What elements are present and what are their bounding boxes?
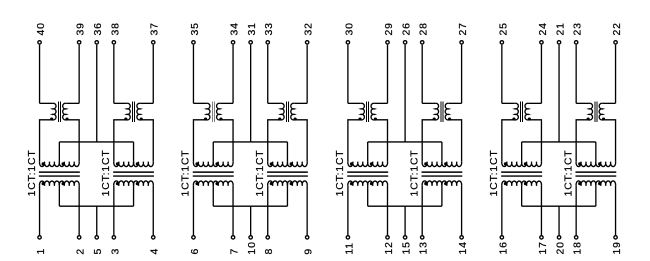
svg-text:8: 8 — [264, 248, 275, 255]
svg-text:35: 35 — [190, 22, 201, 35]
svg-text:31: 31 — [247, 22, 258, 35]
svg-text:9: 9 — [304, 248, 315, 255]
svg-text:14: 14 — [458, 241, 469, 254]
svg-text:11: 11 — [344, 242, 355, 255]
svg-text:37: 37 — [150, 22, 161, 35]
svg-text:28: 28 — [419, 22, 430, 35]
svg-text:39: 39 — [76, 22, 87, 35]
svg-text:12: 12 — [384, 241, 395, 254]
svg-text:30: 30 — [344, 22, 355, 35]
svg-text:24: 24 — [538, 22, 549, 35]
svg-text:25: 25 — [498, 22, 509, 35]
svg-text:33: 33 — [264, 22, 275, 35]
svg-text:1CT:1CT: 1CT:1CT — [255, 149, 266, 196]
svg-text:17: 17 — [538, 241, 549, 254]
svg-text:32: 32 — [304, 22, 315, 35]
svg-text:1CT:1CT: 1CT:1CT — [27, 149, 38, 196]
svg-text:5: 5 — [93, 248, 104, 255]
svg-text:20: 20 — [556, 241, 567, 254]
svg-text:23: 23 — [573, 22, 584, 35]
svg-text:10: 10 — [247, 241, 258, 254]
svg-text:1: 1 — [36, 248, 47, 255]
svg-text:40: 40 — [36, 22, 47, 35]
svg-text:38: 38 — [110, 22, 121, 35]
svg-text:1CT:1CT: 1CT:1CT — [335, 149, 346, 196]
svg-text:15: 15 — [402, 241, 413, 254]
svg-text:18: 18 — [573, 241, 584, 254]
svg-text:7: 7 — [230, 248, 241, 255]
svg-text:26: 26 — [402, 22, 413, 35]
svg-text:6: 6 — [190, 248, 201, 255]
svg-text:19: 19 — [612, 241, 623, 254]
svg-text:1CT:1CT: 1CT:1CT — [563, 149, 574, 196]
svg-text:3: 3 — [110, 248, 121, 255]
svg-text:1CT:1CT: 1CT:1CT — [101, 149, 112, 196]
svg-text:27: 27 — [458, 22, 469, 35]
svg-text:16: 16 — [498, 241, 509, 254]
svg-text:29: 29 — [384, 22, 395, 35]
svg-text:1CT:1CT: 1CT:1CT — [489, 149, 500, 196]
svg-text:13: 13 — [419, 241, 430, 254]
svg-text:1CT:1CT: 1CT:1CT — [410, 149, 421, 196]
svg-text:4: 4 — [150, 248, 161, 255]
svg-text:1CT:1CT: 1CT:1CT — [181, 149, 192, 196]
svg-text:21: 21 — [556, 22, 567, 35]
svg-text:22: 22 — [612, 22, 623, 35]
svg-text:36: 36 — [93, 22, 104, 35]
svg-text:34: 34 — [230, 22, 241, 35]
svg-text:2: 2 — [76, 248, 87, 255]
